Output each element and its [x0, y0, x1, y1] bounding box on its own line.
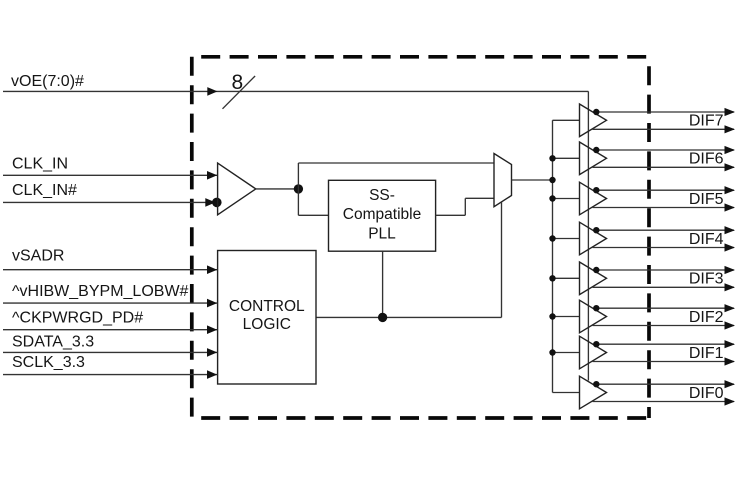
svg-text:CONTROL: CONTROL: [229, 298, 305, 315]
svg-text:^vHIBW_BYPM_LOBW#: ^vHIBW_BYPM_LOBW#: [12, 283, 189, 300]
svg-text:SCLK_3.3: SCLK_3.3: [12, 354, 85, 371]
svg-text:DIF1: DIF1: [689, 345, 724, 362]
svg-text:DIF7: DIF7: [689, 113, 724, 130]
svg-text:DIF4: DIF4: [689, 231, 724, 248]
svg-text:DIF6: DIF6: [689, 151, 724, 168]
svg-text:DIF2: DIF2: [689, 309, 724, 326]
svg-text:SDATA_3.3: SDATA_3.3: [12, 334, 94, 351]
svg-text:vOE(7:0)#: vOE(7:0)#: [11, 73, 84, 90]
svg-text:8: 8: [232, 71, 244, 94]
svg-text:DIF5: DIF5: [689, 191, 724, 208]
svg-text:CLK_IN: CLK_IN: [12, 156, 68, 173]
svg-text:Compatible: Compatible: [343, 206, 421, 223]
svg-text:DIF0: DIF0: [689, 385, 724, 402]
svg-text:CLK_IN#: CLK_IN#: [12, 182, 77, 199]
svg-text:LOGIC: LOGIC: [243, 316, 291, 333]
svg-text:^CKPWRGD_PD#: ^CKPWRGD_PD#: [12, 310, 143, 327]
svg-text:PLL: PLL: [368, 226, 396, 243]
svg-text:SS-: SS-: [369, 187, 395, 204]
svg-text:DIF3: DIF3: [689, 271, 724, 288]
svg-text:vSADR: vSADR: [12, 248, 64, 265]
